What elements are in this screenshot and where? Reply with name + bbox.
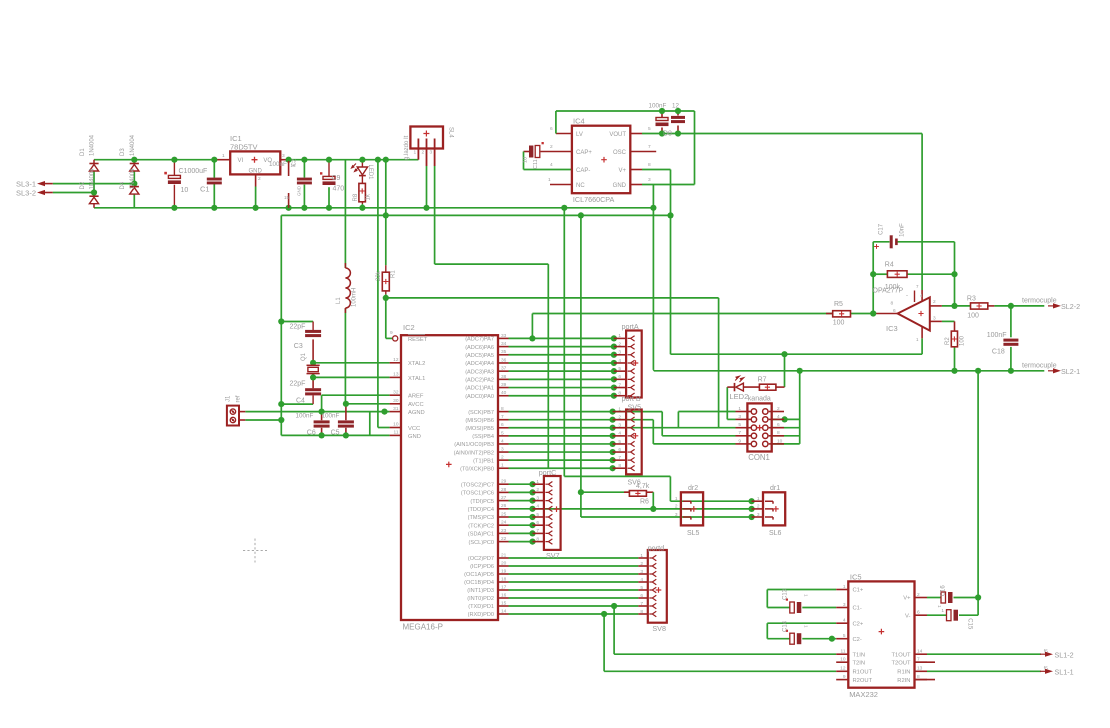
svg-text:34: 34 [501, 341, 507, 347]
wire GND drop x=564.3 to dr2 pin1 [563, 208, 565, 477]
IC2 RESET pin with bubble [393, 336, 398, 341]
svg-text:VI: VI [238, 158, 244, 164]
wire C14 loop [767, 622, 836, 624]
svg-text:100nF: 100nF [649, 103, 667, 110]
svg-text:100nF: 100nF [987, 332, 1007, 339]
svg-text:portd: portd [648, 543, 664, 552]
svg-text:SL3-1: SL3-1 [16, 180, 36, 189]
diode D2 1N4004 [89, 195, 98, 197]
svg-text:ICL7660CPA: ICL7660CPA [573, 195, 615, 204]
wire AREF row [322, 394, 390, 396]
svg-text:J1: J1 [226, 395, 232, 402]
header portB SV5 [626, 410, 642, 475]
svg-text:2: 2 [917, 592, 920, 598]
svg-text:6: 6 [550, 126, 553, 132]
svg-text:SV7: SV7 [546, 551, 560, 560]
IC2 MEGA16-P microcontroller [401, 335, 498, 620]
svg-text:30: 30 [393, 398, 399, 404]
svg-text:L1: L1 [336, 297, 342, 304]
svg-text:3: 3 [843, 602, 846, 608]
svg-text:2: 2 [757, 504, 760, 510]
svg-text:3: 3 [640, 569, 643, 575]
capacitor C17 10nF [890, 235, 894, 248]
connector CON1 [747, 403, 771, 451]
svg-text:2: 2 [777, 406, 780, 412]
svg-text:MEGA16-P: MEGA16-P [403, 623, 443, 632]
svg-text:C1-: C1- [853, 606, 862, 612]
svg-text:8: 8 [618, 463, 621, 469]
wire AVCC row [346, 403, 390, 405]
svg-text:3: 3 [648, 177, 651, 183]
wire CON1 pin5 feed vertical x=718.6 [718, 298, 720, 428]
svg-text:6: 6 [777, 422, 780, 428]
svg-text:1: 1 [548, 177, 551, 183]
resistor R6 4.7k [629, 491, 646, 497]
svg-text:470: 470 [333, 186, 345, 193]
svg-text:D2: D2 [80, 181, 86, 189]
svg-text:2: 2 [675, 504, 678, 510]
svg-text:25: 25 [501, 511, 507, 517]
svg-text:6: 6 [917, 610, 920, 616]
IC4 ICL7660CPA charge pump [572, 126, 630, 194]
wire R1 column [385, 160, 387, 266]
wire portB pin1 to CON1 pin7 [613, 411, 663, 413]
svg-text:(T1)PB1: (T1)PB1 [473, 458, 494, 464]
svg-text:10: 10 [523, 157, 529, 163]
capacitor C12 [671, 116, 685, 119]
svg-text:C5: C5 [331, 430, 340, 437]
svg-text:8: 8 [648, 162, 651, 168]
svg-text:(ADC2)PA2: (ADC2)PA2 [465, 378, 494, 384]
svg-text:5: 5 [640, 585, 643, 591]
wire GND row to thermocouple y=370.8 [652, 369, 654, 371]
svg-text:C13: C13 [783, 588, 789, 600]
svg-text:D8: D8 [663, 131, 672, 138]
svg-text:T2IN: T2IN [853, 660, 866, 666]
svg-text:VOUT: VOUT [609, 132, 626, 138]
svg-text:XTAL2: XTAL2 [408, 361, 425, 367]
capacitor C1 [207, 178, 222, 181]
svg-text:4,7k: 4,7k [636, 483, 650, 490]
wire C4 bottom link [281, 403, 313, 405]
svg-text:19: 19 [501, 568, 507, 574]
wire R7 drop from y=354.2 [784, 354, 786, 387]
svg-text:OSC: OSC [613, 150, 627, 156]
wire R3 to SL2-2 [988, 305, 995, 307]
svg-text:14: 14 [501, 608, 507, 614]
svg-text:(SS)PB4: (SS)PB4 [472, 434, 494, 440]
wire C1 leads [213, 160, 215, 178]
svg-text:3: 3 [757, 512, 760, 518]
LED LED1 [357, 167, 367, 175]
svg-text:C14: C14 [783, 620, 789, 632]
svg-text:V-: V- [905, 613, 911, 619]
svg-text:1: 1 [941, 608, 944, 614]
svg-text:100: 100 [967, 312, 979, 319]
svg-text:1: 1 [618, 406, 621, 412]
wire IC1 GND pin to rail [255, 174, 257, 186]
svg-text:(OC1B)PD4: (OC1B)PD4 [464, 580, 494, 586]
svg-text:3: 3 [738, 414, 741, 420]
svg-text:16: 16 [501, 592, 507, 598]
resistor R2 100 [951, 331, 957, 347]
svg-text:1N4004: 1N4004 [90, 168, 96, 190]
svg-text:18: 18 [501, 576, 507, 582]
IC1 78D5TV voltage regulator [230, 151, 280, 174]
svg-text:IC5: IC5 [850, 573, 862, 582]
svg-text:2: 2 [550, 144, 553, 150]
svg-text:4: 4 [618, 358, 621, 364]
wire SL4 pin2 to GND rail [426, 166, 428, 208]
svg-text:5: 5 [536, 512, 539, 518]
svg-text:2: 2 [536, 487, 539, 493]
wire op-amp V- pin drop [921, 338, 923, 354]
svg-text:XTAL1: XTAL1 [408, 376, 425, 382]
svg-text:SV5: SV5 [628, 403, 642, 412]
svg-text:17: 17 [501, 584, 507, 590]
wire IC1 VI pin stub [216, 159, 230, 161]
wire IC4 V+ pin to mid rail x=670.5 [630, 169, 642, 171]
svg-text:4: 4 [550, 162, 553, 168]
svg-text:SL6: SL6 [769, 530, 782, 537]
wire portd RXD drop to MAX232 R1OUT [603, 614, 605, 671]
svg-text:dr2: dr2 [688, 485, 698, 492]
svg-text:1N4004: 1N4004 [130, 168, 136, 190]
svg-text:D1: D1 [80, 148, 86, 156]
svg-text:IC3: IC3 [886, 324, 898, 333]
svg-text:5: 5 [843, 633, 846, 639]
connector J1 ref [227, 406, 239, 426]
svg-text:MAX232: MAX232 [849, 690, 878, 699]
svg-text:GND: GND [613, 183, 627, 189]
wire T2OUT stub [915, 661, 936, 663]
svg-text:1: 1 [738, 406, 741, 412]
capacitor C9 470 [323, 175, 335, 177]
crystal Q1 [307, 364, 320, 366]
svg-text:36: 36 [501, 357, 507, 363]
wire GND bottom rail [94, 207, 653, 209]
svg-text:termocuple: termocuple [1022, 297, 1057, 304]
wire C18 branch [1010, 306, 1012, 337]
svg-text:23: 23 [501, 528, 507, 534]
svg-text:1k: 1k [366, 193, 372, 200]
svg-text:C6: C6 [307, 430, 316, 437]
svg-text:(INT1)PD3: (INT1)PD3 [467, 588, 494, 594]
svg-text:8: 8 [777, 430, 780, 436]
svg-text:39: 39 [501, 382, 507, 388]
svg-text:1: 1 [414, 150, 417, 156]
wire C5 leads [345, 404, 347, 420]
svg-text:R2IN: R2IN [897, 678, 910, 684]
svg-text:8: 8 [891, 301, 894, 307]
header pin junction dots portC [529, 481, 535, 487]
svg-text:LED1: LED1 [367, 165, 373, 181]
svg-text:termocuple: termocuple [1022, 362, 1057, 369]
svg-text:(TOSC2)PC7: (TOSC2)PC7 [461, 482, 494, 488]
svg-text:6: 6 [640, 593, 643, 599]
svg-text:4: 4 [536, 504, 539, 510]
svg-text:26: 26 [501, 503, 507, 509]
power gate pins at VO node [288, 161, 290, 176]
wire portC pin4 long row to dr pin2 [533, 508, 752, 510]
svg-text:(AIN0/INT2)PB2: (AIN0/INT2)PB2 [454, 450, 494, 456]
svg-text:1: 1 [936, 605, 942, 608]
svg-text:1: 1 [757, 496, 760, 502]
resistor R8 1k [359, 183, 366, 201]
wire IC4 GND pin row [630, 184, 642, 186]
svg-text:13: 13 [393, 372, 399, 378]
svg-text:2: 2 [422, 150, 425, 156]
svg-text:AGND: AGND [408, 410, 425, 416]
svg-text:C4: C4 [296, 398, 305, 405]
svg-text:g.lazdo It: g.lazdo It [404, 135, 410, 160]
svg-text:33: 33 [501, 333, 507, 339]
svg-text:IC2: IC2 [403, 323, 415, 332]
svg-text:2: 2 [618, 414, 621, 420]
wire bridge left column [93, 160, 95, 164]
svg-text:dr1: dr1 [770, 485, 780, 492]
svg-text:38: 38 [501, 374, 507, 380]
svg-text:40: 40 [501, 390, 507, 396]
svg-text:2: 2 [933, 299, 936, 305]
svg-text:7: 7 [738, 430, 741, 436]
svg-text:C17: C17 [879, 223, 885, 235]
svg-text:(SCK)PB7: (SCK)PB7 [468, 410, 494, 416]
diode D1 1N4004 [89, 163, 98, 165]
svg-text:7: 7 [501, 414, 504, 420]
svg-text:(TCK)PC2: (TCK)PC2 [468, 523, 494, 529]
wire GND drop to MAX232 caps x=978.1 [977, 371, 979, 615]
svg-text:R5: R5 [834, 301, 843, 308]
svg-text:8: 8 [501, 406, 504, 412]
svg-text:28: 28 [501, 487, 507, 493]
svg-text:7: 7 [618, 382, 621, 388]
svg-text:24: 24 [501, 520, 507, 526]
wire CON1 pin1 jog [677, 412, 679, 428]
svg-text:100nF: 100nF [322, 413, 340, 420]
svg-text:4: 4 [501, 438, 504, 444]
capacitor C11 10uF [529, 146, 533, 158]
svg-text:1: 1 [501, 463, 504, 469]
svg-text:1: 1 [640, 553, 643, 559]
svg-text:(INT0)PD2: (INT0)PD2 [467, 596, 494, 602]
svg-text:(ADC6)PA6: (ADC6)PA6 [465, 345, 494, 351]
svg-text:portA: portA [622, 322, 639, 331]
svg-text:(ADC3)PA3: (ADC3)PA3 [465, 369, 494, 375]
svg-text:1: 1 [803, 625, 809, 628]
wire C17 top run [873, 241, 889, 243]
wire XTAL1 row [313, 376, 390, 378]
svg-text:27: 27 [501, 495, 507, 501]
svg-text:7: 7 [648, 144, 651, 150]
resistor R7 [759, 384, 776, 390]
svg-text:4: 4 [640, 577, 643, 583]
header portA SV5 [626, 331, 642, 398]
svg-text:T2OUT: T2OUT [891, 660, 910, 666]
wire C11 loop [541, 151, 572, 153]
svg-text:4: 4 [843, 618, 846, 624]
wire portB pin2 to CON1 pin9 [613, 419, 654, 421]
svg-text:12: 12 [672, 103, 679, 110]
svg-text:1N4004: 1N4004 [130, 134, 136, 156]
wire C15 row [927, 614, 947, 616]
svg-text:10: 10 [777, 438, 783, 444]
svg-text:4: 4 [777, 414, 780, 420]
svg-text:2: 2 [618, 341, 621, 347]
svg-text:C1: C1 [200, 185, 210, 194]
svg-text:GND: GND [408, 434, 421, 440]
svg-text:C1+: C1+ [853, 588, 864, 594]
svg-text:22pF: 22pF [290, 324, 306, 331]
svg-text:C1000uF: C1000uF [179, 168, 208, 175]
svg-text:3: 3 [536, 495, 539, 501]
svg-text:22: 22 [501, 536, 507, 542]
wire dr2/dr1 pin1 row [670, 500, 751, 502]
svg-text:5: 5 [618, 366, 621, 372]
resistor R1 22k [382, 272, 389, 291]
svg-text:NC: NC [576, 183, 585, 189]
svg-text:29: 29 [501, 479, 507, 485]
capacitor C6 100nF [314, 420, 330, 423]
wire op-amp V+ supply from IC4 VOUT [642, 133, 922, 135]
svg-text:SL2-1: SL2-1 [1061, 367, 1080, 376]
svg-text:C3: C3 [294, 343, 303, 350]
svg-text:6: 6 [618, 447, 621, 453]
svg-text:SL1-1: SL1-1 [1055, 668, 1074, 677]
diode D3 1N4004 [130, 163, 139, 165]
svg-text:14: 14 [917, 649, 923, 655]
svg-text:GND: GND [297, 185, 302, 196]
svg-text:11: 11 [841, 649, 846, 655]
svg-text:C9: C9 [332, 175, 341, 182]
wire amplifier output line y=313.5 [531, 314, 533, 339]
svg-text:SL2-2: SL2-2 [1061, 302, 1080, 311]
svg-text:C15: C15 [967, 618, 973, 630]
svg-text:3: 3 [933, 316, 936, 322]
IC5 MAX232 [848, 581, 914, 687]
wire J1 pin1 AGND row [245, 411, 389, 413]
wire V- supply run x=670.5 down and right y=354.2 [670, 215, 672, 354]
svg-text:8: 8 [640, 609, 643, 615]
svg-text:D4: D4 [120, 181, 126, 189]
svg-text:SL3-2: SL3-2 [16, 188, 36, 197]
svg-text:5: 5 [501, 430, 504, 436]
svg-text:C18: C18 [992, 349, 1005, 356]
IC4 OSC stub [630, 151, 656, 153]
wire AGND drop to gnd row [369, 412, 371, 436]
svg-text:6: 6 [501, 422, 504, 428]
svg-text:10: 10 [181, 187, 189, 194]
wire SL4 pin3 net [434, 166, 436, 264]
wire op-amp non-inverting input to R2 [930, 320, 942, 322]
svg-text:SL4: SL4 [448, 127, 454, 138]
svg-text:7: 7 [640, 601, 643, 607]
svg-text:(MISO)PB6: (MISO)PB6 [465, 418, 494, 424]
header portd SV8 [648, 550, 667, 623]
capacitor C8 100nF [656, 117, 668, 119]
svg-text:R1: R1 [391, 270, 397, 278]
svg-text:R4: R4 [885, 261, 894, 268]
svg-text:32: 32 [393, 389, 399, 395]
svg-text:CAP-: CAP- [576, 168, 590, 174]
svg-text:VCC: VCC [408, 426, 420, 432]
svg-text:1N4004: 1N4004 [90, 134, 96, 156]
wire C16 row [927, 597, 941, 599]
svg-text:(ADC5)PA5: (ADC5)PA5 [465, 353, 494, 359]
svg-text:ref: ref [236, 395, 242, 402]
wire R4 row [873, 273, 887, 275]
wire op-amp inverting input [930, 305, 942, 307]
svg-text:(SCL)PC0: (SCL)PC0 [469, 540, 495, 546]
IC2 port B pins [498, 411, 509, 413]
svg-text:(TDI)PC5: (TDI)PC5 [470, 499, 494, 505]
svg-text:10: 10 [393, 422, 399, 428]
wire IC4 GND vertical x=653.4 [652, 185, 654, 370]
inductor L1 100mH [344, 263, 346, 268]
svg-text:2: 2 [640, 561, 643, 567]
svg-text:(OC1A)PD5: (OC1A)PD5 [464, 572, 494, 578]
svg-text:R7: R7 [758, 376, 767, 383]
capacitor C18 100nF [1003, 339, 1018, 342]
wire XTAL2 row [313, 362, 390, 364]
wire SL3-1 input [53, 183, 135, 185]
connector SL4 [410, 127, 443, 149]
wire feedback right vertical [954, 242, 956, 306]
svg-text:1: 1 [536, 479, 539, 485]
svg-text:(OC2)PD7: (OC2)PD7 [468, 556, 494, 562]
capacitor C13 [790, 602, 795, 613]
wire R5 to op-amp output node [851, 313, 874, 315]
IC2 left pins [390, 362, 401, 364]
header portC SV7 [544, 476, 561, 550]
wire LED1 R8 column [361, 160, 363, 167]
svg-text:(ADC7)PA7: (ADC7)PA7 [465, 337, 494, 343]
svg-text:kanada: kanada [748, 396, 771, 403]
svg-text:C2-: C2- [853, 637, 862, 643]
svg-text:(TOSC1)PC6: (TOSC1)PC6 [461, 491, 494, 497]
svg-text:SV8: SV8 [652, 624, 666, 633]
wire R6 feed [581, 491, 630, 493]
connector SL6 dr1 [763, 492, 785, 525]
svg-text:GND: GND [249, 168, 263, 174]
wire C2 column [303, 160, 305, 178]
wire C3 top link [281, 321, 313, 323]
svg-text:6: 6 [893, 308, 896, 314]
svg-text:10nF: 10nF [900, 223, 906, 237]
svg-text:R2: R2 [945, 337, 951, 345]
svg-text:3: 3 [618, 350, 621, 356]
svg-text:5: 5 [738, 422, 741, 428]
svg-text:V+: V+ [903, 596, 911, 602]
svg-text:7: 7 [536, 528, 539, 534]
svg-text:(ADC4)PA4: (ADC4)PA4 [465, 361, 494, 367]
svg-text:C16: C16 [941, 585, 947, 597]
svg-text:(T0/XCK)PB0: (T0/XCK)PB0 [460, 466, 494, 472]
wire LED2 to CON1 pin3 [726, 387, 728, 419]
svg-text:(AIN1/OC0)PB3: (AIN1/OC0)PB3 [454, 442, 494, 448]
capacitor C5 100nF [338, 420, 354, 423]
svg-text:15: 15 [501, 600, 507, 606]
capacitor C16 [941, 592, 946, 603]
svg-text:21: 21 [501, 552, 507, 558]
svg-text:37: 37 [501, 366, 507, 372]
svg-text:9: 9 [738, 438, 741, 444]
wire C6 leads [321, 412, 323, 421]
svg-text:1: 1 [222, 153, 225, 159]
wire IC4 VOUT stub [630, 133, 642, 135]
svg-text:port B: port B [622, 394, 641, 403]
svg-text:3: 3 [501, 446, 504, 452]
